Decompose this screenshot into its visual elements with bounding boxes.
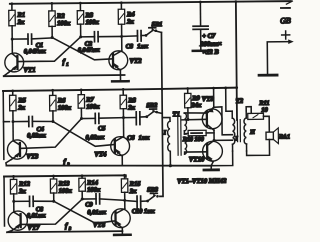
capacitor C4: [13, 116, 53, 139]
svg-text:VT7: VT7: [27, 225, 40, 232]
svg-text:II: II: [249, 130, 255, 136]
node rail2 bus: [161, 88, 164, 91]
svg-text:100к: 100к: [59, 188, 73, 195]
label f2: [63, 158, 70, 167]
resistor R13: [50, 176, 72, 195]
svg-text:VT4: VT4: [94, 151, 107, 158]
switch SB3: [146, 186, 159, 202]
svg-text:VT1–VT10 МП42: VT1–VT10 МП42: [177, 178, 227, 185]
wire cross coupling A2: [53, 121, 114, 147]
svg-text:VT1: VT1: [23, 67, 35, 74]
label f1: [62, 58, 68, 67]
speaker BA1: [266, 128, 290, 144]
resistor R15: [121, 175, 141, 195]
wire supply rail block2: [3, 88, 237, 91]
svg-text:Т1: Т1: [172, 111, 180, 118]
svg-text:ВА1: ВА1: [278, 133, 290, 140]
svg-text:2к: 2к: [18, 188, 26, 195]
resistor R12: [10, 176, 30, 195]
svg-text:2к: 2к: [17, 104, 25, 111]
wire T2 primary top feed: [226, 88, 233, 111]
svg-text:С10 1мк: С10 1мк: [132, 208, 156, 215]
svg-text:R6: R6: [57, 97, 66, 104]
capacitor C3: [122, 30, 149, 50]
wire R13 bottom: [53, 193, 55, 201]
node R1 top: [10, 2, 13, 5]
svg-text:100к: 100к: [57, 20, 71, 27]
svg-text:100к: 100к: [58, 105, 72, 112]
resistor R3: [77, 3, 99, 26]
svg-text:R12: R12: [18, 181, 31, 188]
wire R7 bottom: [80, 108, 82, 118]
wire R2 bottom: [51, 26, 53, 37]
svg-text:I: I: [163, 130, 167, 136]
resistor R4: [118, 3, 135, 26]
node rail2 R7: [80, 89, 83, 92]
svg-text:С3: С3: [126, 43, 133, 50]
node rail2 VT9: [212, 87, 215, 90]
wire battery plus: [267, 39, 294, 74]
svg-text:0,02мк: 0,02мк: [27, 132, 46, 139]
svg-text:100к: 100к: [86, 103, 100, 110]
node R3 top: [79, 2, 82, 5]
ground C7: [193, 49, 209, 52]
svg-text:VT8: VT8: [93, 222, 106, 229]
resistor R10: [182, 130, 215, 143]
svg-text:R7: R7: [85, 97, 94, 104]
node rail2 R9: [186, 87, 189, 90]
wire supply rail block3: [4, 175, 126, 178]
svg-text:R13: R13: [58, 180, 71, 187]
wire R14 bottom: [81, 191, 83, 199]
wire R3 bottom: [80, 24, 82, 37]
node rail2 R6: [51, 89, 54, 92]
wire R1 to C1 junction: [11, 26, 13, 39]
svg-text:2к: 2к: [127, 104, 135, 111]
wire speaker bottom to T2 secondary: [246, 140, 269, 156]
node rail2 R5: [11, 89, 14, 92]
capacitor C5: [81, 113, 123, 141]
wire R8 bottom: [122, 109, 124, 118]
ground block3: [114, 231, 131, 235]
transistor VT1: [3, 39, 35, 76]
resistor R5: [10, 91, 27, 112]
node VT1 collector: [11, 38, 14, 41]
node VT3 collector: [11, 120, 14, 123]
wire block2 left drop: [3, 91, 10, 159]
svg-text:R15: R15: [129, 181, 142, 188]
node T1 primary bottom: [169, 164, 172, 167]
switch SB1: [144, 21, 162, 37]
svg-text:VT10: VT10: [189, 156, 205, 163]
svg-text:24к: 24к: [190, 102, 202, 109]
svg-text:R1: R1: [16, 12, 25, 19]
node rail3 R12: [12, 175, 15, 178]
svg-text:1мк: 1мк: [137, 43, 149, 50]
resistor R11: [248, 100, 270, 120]
node VT7 collector: [12, 200, 15, 203]
node R2 bottom: [51, 36, 54, 39]
svg-text:f: f: [65, 222, 68, 230]
resistor R6: [50, 90, 72, 112]
node R3 bottom: [79, 35, 82, 38]
node VT8 collector: [123, 199, 126, 202]
resistor R9: [184, 88, 201, 119]
svg-text:2к: 2к: [17, 19, 25, 26]
label f3: [65, 222, 72, 231]
svg-text:С6: С6: [127, 135, 135, 142]
battery GB terminals: [280, 8, 291, 39]
svg-text:С9: С9: [85, 201, 93, 208]
svg-text:R9: R9: [191, 95, 200, 102]
svg-text:0,01мк: 0,01мк: [87, 209, 106, 216]
wire cross coupling A: [52, 37, 112, 60]
resistor R8: [120, 89, 137, 111]
node right drop top: [234, 0, 237, 3]
svg-text:R10 100: R10 100: [182, 136, 204, 143]
switch SB2: [145, 102, 162, 118]
wire R6 bottom: [52, 111, 54, 122]
wire emitter rail block1: [4, 75, 125, 76]
wire cross coupling B2: [20, 119, 82, 149]
wire signal bus: [158, 32, 163, 196]
node VT9 collector junction: [213, 139, 216, 142]
transformer T2: [232, 98, 256, 151]
svg-text:С5: С5: [98, 125, 105, 132]
svg-text:100к: 100к: [86, 19, 100, 26]
node rail3 R13: [52, 175, 55, 178]
wire emitter rail block2 return: [6, 164, 211, 168]
wire cross coupling A3: [54, 201, 115, 224]
svg-text:100к: 100к: [87, 187, 101, 194]
svg-text:0,047мк: 0,047мк: [24, 48, 47, 55]
svg-text:R4: R4: [126, 11, 135, 18]
capacitor C2: [78, 31, 122, 53]
wire emitter rail block3: [7, 231, 122, 232]
transistor VT8: [93, 200, 131, 231]
svg-text:1: 1: [66, 62, 68, 67]
resistor R2: [49, 3, 71, 27]
node R7 bottom: [80, 117, 83, 120]
capacitor C10: [125, 196, 156, 215]
resistor R14: [79, 176, 101, 194]
wire block3 left drop: [3, 176, 5, 225]
transistor VT3: [5, 121, 39, 165]
node rail2 T2: [224, 87, 227, 90]
svg-text:SB3: SB3: [147, 186, 158, 193]
svg-text:0,02мк: 0,02мк: [86, 134, 105, 141]
wire R4 bottom: [121, 24, 123, 36]
ground battery plus: [259, 74, 277, 77]
node rail3 R14: [81, 174, 84, 177]
svg-text:10: 10: [261, 107, 268, 114]
transistor VT10: [189, 140, 233, 166]
wire cross coupling B: [17, 37, 81, 62]
svg-text:R5: R5: [17, 97, 26, 104]
wire VT9 emitter to T2: [214, 107, 233, 135]
transistor VT9: [202, 88, 223, 140]
capacitor C1: [12, 34, 52, 55]
svg-text:f: f: [62, 58, 65, 66]
node R14 bottom: [81, 198, 84, 201]
wire R11 to speaker: [263, 116, 269, 132]
capacitor C6: [123, 112, 150, 142]
ground amplifier: [204, 166, 219, 170]
resistor R7: [78, 90, 100, 111]
wire R12 to C8 junction: [13, 194, 15, 201]
node VT2 collector: [120, 35, 123, 38]
svg-text:200мк×: 200мк×: [199, 41, 222, 48]
svg-text:R3: R3: [84, 12, 93, 19]
svg-text:R2: R2: [56, 13, 65, 20]
node rail2 right: [235, 86, 238, 89]
transistor VT7: [7, 201, 40, 232]
wire R5 to C4 junction: [12, 111, 14, 122]
capacitor C8: [14, 196, 54, 219]
svg-text:+ С7: + С7: [202, 33, 216, 40]
wire top supply rail: [10, 1, 293, 7]
svg-text:2к: 2к: [126, 18, 134, 25]
wire R15 bottom: [124, 192, 126, 200]
svg-text:R8: R8: [127, 97, 136, 104]
svg-text:f: f: [63, 158, 66, 166]
wire R9 node to VT9 base: [182, 118, 207, 121]
node R9 bottom: [186, 118, 189, 121]
node R6 bottom: [51, 120, 54, 123]
node R13 bottom: [52, 200, 55, 203]
svg-text:VT3: VT3: [26, 153, 39, 160]
capacitor C9: [82, 194, 125, 217]
wire T2 primary bottom: [211, 151, 233, 166]
svg-text:Т2: Т2: [236, 98, 244, 105]
svg-text:3: 3: [68, 226, 72, 231]
svg-text:VT9: VT9: [202, 96, 215, 103]
node R2 top: [50, 2, 53, 5]
node R4 top: [120, 1, 123, 4]
resistor R1: [9, 4, 26, 26]
svg-text:0,01мк: 0,01мк: [27, 212, 46, 219]
wire cross coupling B3: [20, 199, 82, 224]
wire right supply drop: [236, 2, 237, 120]
transistor VT2: [109, 36, 143, 75]
transformer T1: [162, 111, 207, 166]
svg-text:2к: 2к: [129, 188, 137, 195]
transistor VT4: [94, 118, 130, 166]
wire T2 secondary top to R11: [246, 107, 251, 114]
node rail3 R15: [123, 174, 126, 177]
node VT4 collector: [122, 116, 125, 119]
node rail2 R8: [122, 88, 125, 91]
svg-text:SB2: SB2: [146, 102, 157, 109]
ground block1: [112, 75, 129, 81]
svg-text:GB: GB: [280, 16, 291, 25]
svg-text:VT2: VT2: [129, 58, 142, 65]
node C7 top: [199, 1, 202, 4]
svg-text:SB1: SB1: [152, 21, 163, 28]
svg-text:1мк: 1мк: [139, 134, 151, 141]
capacitor C7: [193, 2, 222, 56]
